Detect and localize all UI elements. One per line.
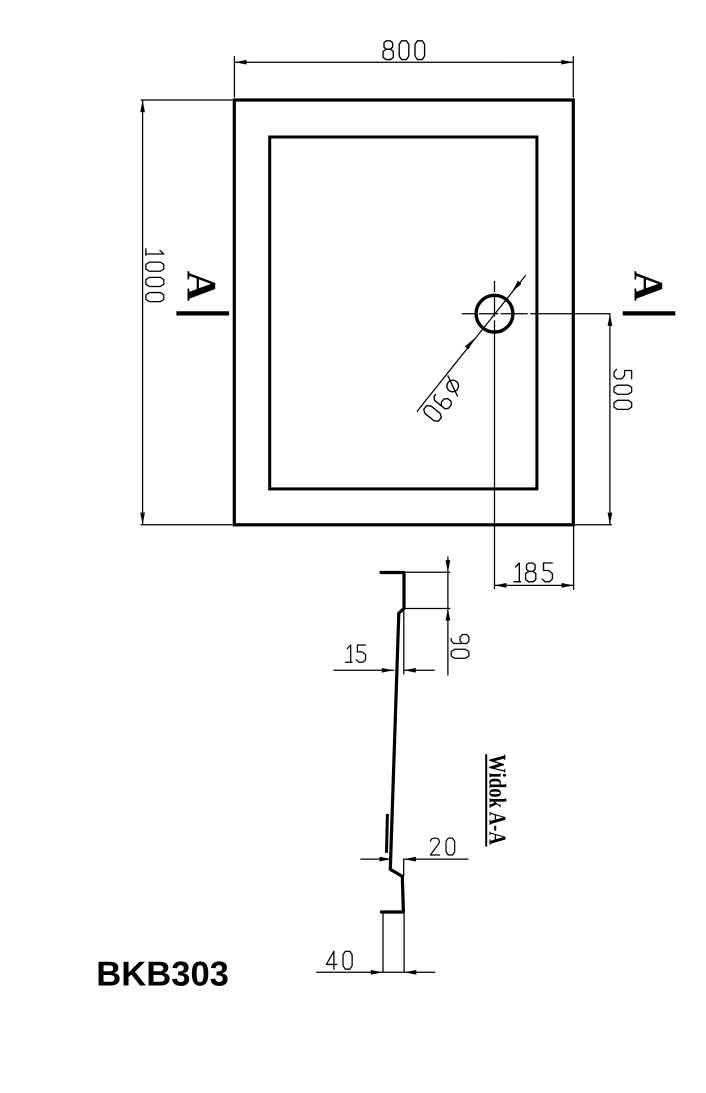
arrow 15 left: [382, 668, 394, 673]
dimension 800 extension line right: [572, 57, 574, 98]
inner rectangle (tray bottom): [270, 137, 537, 489]
dimension 500 extension line bottom: [575, 524, 611, 526]
arrow 20 left: [380, 857, 392, 862]
dimension 40 line: [317, 971, 435, 973]
arrow 90 top: [446, 560, 451, 572]
dimension 90 line: [447, 557, 449, 675]
dimension 185 line: [495, 584, 574, 586]
drain diameter leader line: [417, 275, 526, 412]
section marker A left line: [176, 311, 229, 315]
dimension 1000 extension line bottom: [141, 524, 232, 526]
dimension 185 extension line right: [573, 527, 575, 590]
dimension 15 extension: [403, 610, 405, 675]
svg-text:A: A: [178, 271, 224, 302]
dimension 20 extension: [403, 859, 405, 876]
section profile overlap strip: [385, 814, 389, 853]
arrow 500 bottom: [608, 513, 613, 525]
arrow 40 left: [371, 970, 383, 975]
view label underline: [485, 754, 487, 846]
section marker A right line: [623, 311, 676, 315]
drain box: [383, 912, 404, 972]
svg-text:BKB303: BKB303: [96, 955, 229, 993]
arrow 800 right: [561, 60, 573, 65]
circle centerline horizontal: [462, 313, 611, 315]
text 1000 (rotated): [146, 249, 164, 302]
dimension 90 extension top: [406, 571, 450, 573]
arrow leader upper: [510, 281, 521, 293]
dimension 800 line: [235, 61, 574, 63]
text 185: [514, 563, 553, 582]
circle centerline vertical: [494, 281, 496, 589]
svg-text:A: A: [625, 271, 671, 302]
arrow 500 top: [608, 314, 613, 326]
drain circle: [476, 295, 513, 332]
dimension 15 line: [334, 669, 435, 671]
dimension 500 line: [609, 314, 611, 524]
text diameter 90 (rotated along leader): [441, 375, 464, 397]
arrow 20 right: [404, 857, 416, 862]
svg-text:Widok A-A: Widok A-A: [484, 754, 512, 845]
arrow 185 left: [495, 583, 507, 588]
arrow 90 bottom: [446, 609, 451, 621]
dimension 800 extension line left: [233, 57, 235, 98]
outer rectangle (tray 800x1000): [234, 100, 573, 525]
arrow 1000 top: [140, 100, 145, 112]
text 800: [383, 41, 425, 60]
dimension 20 line: [361, 858, 468, 860]
text 15: [346, 645, 366, 662]
dimension 1000 line: [142, 101, 144, 525]
arrow 185 right: [562, 583, 574, 588]
dimension 90 extension bottom: [405, 608, 450, 610]
arrow 40 right: [404, 970, 416, 975]
text 90 (rotated): [451, 634, 469, 658]
arrow 1000 bottom: [140, 513, 145, 525]
arrow 15 right: [404, 668, 416, 673]
text 20: [430, 838, 454, 855]
arrow leader lower: [465, 337, 476, 349]
arrow 800 left: [235, 60, 247, 65]
text 40: [326, 951, 352, 969]
text 500 (rotated): [614, 369, 632, 409]
section profile main outline: [381, 573, 404, 913]
dimension 1000 extension line top: [141, 99, 232, 101]
